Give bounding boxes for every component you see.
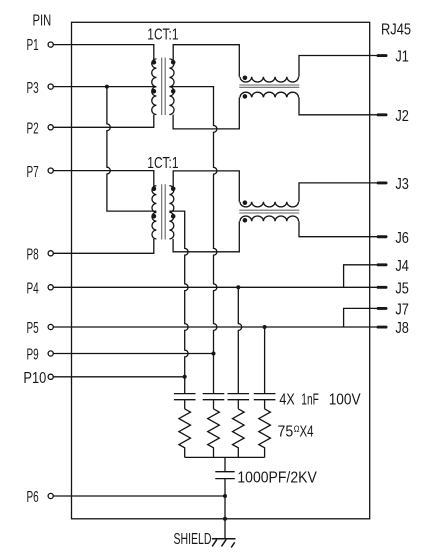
pin P6 bbox=[48, 493, 53, 498]
pad J8 bbox=[377, 326, 388, 329]
transformer T1 secondary winding bbox=[169, 59, 174, 115]
choke L1 bottom winding bbox=[240, 92, 299, 97]
T2 polarity dot secondary lower bbox=[171, 214, 176, 219]
svg-text:P8: P8 bbox=[27, 247, 39, 264]
T2 polarity dot primary upper bbox=[152, 187, 157, 192]
svg-text:P4: P4 bbox=[27, 281, 40, 298]
pad J1 bbox=[377, 54, 388, 57]
choke L2 dot top bbox=[243, 200, 248, 205]
wire T1 secondary bottom to choke L1 bottom input bbox=[173, 97, 239, 128]
svg-text:P9: P9 bbox=[27, 347, 39, 364]
transformer T2 secondary winding bbox=[169, 186, 173, 239]
svg-text:RJ45: RJ45 bbox=[381, 21, 411, 38]
transformer T1 primary winding bbox=[152, 59, 157, 115]
pad J2 bbox=[377, 113, 388, 116]
choke L2 dot bottom bbox=[243, 218, 248, 223]
choke L1 dot bottom bbox=[243, 94, 248, 99]
choke L2 core bbox=[239, 210, 299, 213]
wire rail center drop bbox=[224, 457, 226, 471]
node P6 shield junction bbox=[223, 494, 227, 498]
svg-text:J5: J5 bbox=[395, 281, 409, 298]
wire P9 row bbox=[53, 353, 213, 355]
transformer T1 core bbox=[162, 58, 166, 116]
wire line C choke2 bottom node down to capacitor C3 bbox=[238, 287, 241, 393]
wire P8 to T2 primary bottom bbox=[53, 239, 153, 253]
pin P4 bbox=[48, 285, 53, 290]
resistor R2 bbox=[208, 409, 220, 458]
svg-text:1CT:1: 1CT:1 bbox=[147, 155, 178, 172]
capacitor C5 1000PF plates bbox=[215, 472, 234, 479]
capacitor C1 plates bbox=[174, 394, 196, 400]
svg-text:P2: P2 bbox=[27, 121, 39, 138]
svg-text:1000PF/2KV: 1000PF/2KV bbox=[237, 469, 317, 486]
pin P1 bbox=[48, 42, 53, 47]
T1 polarity dot primary lower bbox=[152, 89, 157, 94]
wire shield line down to ground bbox=[224, 479, 226, 539]
pad J5 bbox=[377, 286, 388, 289]
module outline border bbox=[72, 22, 370, 519]
svg-text:P6: P6 bbox=[27, 489, 39, 506]
node P9 junction on line B bbox=[212, 352, 216, 356]
wire P6 row to shield line bbox=[53, 495, 225, 497]
pad J3 bbox=[377, 182, 388, 185]
capacitor C2 lead bbox=[213, 400, 215, 409]
wire J4 stub bbox=[344, 265, 377, 288]
pad J6 bbox=[377, 235, 388, 238]
wire termination bottom rail bbox=[185, 456, 265, 458]
wire P3 junction down to T2 primary center tap bbox=[107, 87, 156, 212]
pin P9 bbox=[48, 351, 53, 356]
pin P2 bbox=[48, 125, 53, 130]
svg-text:1nF: 1nF bbox=[301, 392, 319, 409]
pin P5 bbox=[48, 324, 53, 329]
svg-text:J1: J1 bbox=[395, 49, 409, 66]
wire P1 to T1 primary top bbox=[53, 45, 153, 61]
choke L2 bottom winding bbox=[240, 216, 299, 221]
T1 polarity dot primary upper bbox=[152, 60, 157, 65]
node P10 junction on line A bbox=[183, 375, 187, 379]
svg-text:4X: 4X bbox=[279, 392, 294, 409]
svg-text:J2: J2 bbox=[395, 108, 409, 125]
capacitor C3 plates bbox=[228, 394, 250, 400]
capacitor C3 lead bbox=[237, 400, 239, 409]
resistor R4 bbox=[259, 409, 271, 458]
pin P3 bbox=[48, 84, 53, 89]
svg-text:P10: P10 bbox=[23, 370, 46, 387]
choke L1 dot top bbox=[243, 76, 248, 81]
wire choke L1 top output to J1 bbox=[299, 56, 377, 77]
wire J7 stub bbox=[344, 308, 377, 327]
T2 polarity dot secondary upper bbox=[171, 187, 176, 192]
transformer T2 primary winding bbox=[152, 186, 156, 239]
svg-text:J8: J8 bbox=[395, 320, 409, 337]
node shield border junction bbox=[223, 517, 227, 521]
wire T2 secondary center tap down line A bbox=[169, 211, 188, 394]
wire P7 to T2 primary top bbox=[53, 171, 153, 188]
capacitor C2 plates bbox=[203, 394, 225, 400]
resistor R3 bbox=[233, 409, 245, 458]
node P5 capacitor branch junction bbox=[263, 325, 267, 329]
svg-text:P1: P1 bbox=[27, 37, 39, 54]
svg-text:X4: X4 bbox=[300, 424, 314, 441]
svg-text:SHIELD: SHIELD bbox=[174, 531, 212, 548]
T2 polarity dot primary lower bbox=[152, 214, 157, 219]
T1 polarity dot secondary lower bbox=[171, 89, 176, 94]
chassis ground symbol bbox=[212, 539, 236, 548]
wire choke L1 bottom output to J2 bbox=[299, 97, 377, 114]
wire T1 secondary center tap down line B bbox=[169, 87, 217, 394]
capacitor C4 plates bbox=[254, 394, 276, 400]
T1 polarity dot secondary upper bbox=[171, 60, 176, 65]
wire choke L2 bottom output to J6 bbox=[299, 221, 377, 237]
svg-text:J3: J3 bbox=[395, 176, 409, 193]
wire P4 row to J5 pad bbox=[53, 286, 376, 288]
svg-text:P5: P5 bbox=[27, 320, 39, 337]
choke L2 top winding bbox=[240, 202, 299, 207]
wire T1 secondary top to choke L1 top input bbox=[173, 45, 239, 77]
svg-text:PIN: PIN bbox=[33, 13, 52, 30]
svg-text:P7: P7 bbox=[27, 164, 39, 181]
wire P2 to T1 primary bottom bbox=[53, 115, 153, 128]
wire line D down to capacitor C4 bbox=[264, 327, 266, 394]
capacitor C4 lead bbox=[264, 400, 266, 409]
wire P10 row bbox=[53, 376, 184, 378]
resistor R1 bbox=[179, 409, 191, 458]
pad J7 bbox=[377, 307, 388, 310]
wire P3 to T1 primary center tap bbox=[53, 86, 156, 88]
svg-text:J7: J7 bbox=[395, 302, 409, 319]
svg-text:75: 75 bbox=[278, 424, 294, 441]
svg-text:J6: J6 bbox=[395, 230, 409, 247]
node P3 junction bbox=[105, 85, 109, 89]
node P4 capacitor branch junction bbox=[236, 285, 240, 289]
wire choke L2 top output to J3 bbox=[299, 183, 377, 202]
svg-text:1CT:1: 1CT:1 bbox=[147, 26, 178, 43]
svg-text:J4: J4 bbox=[395, 258, 409, 275]
choke L1 core bbox=[239, 85, 299, 87]
wire T2 secondary bottom to choke L2 bottom input bbox=[173, 221, 239, 252]
choke L1 top winding bbox=[240, 77, 299, 82]
pin P8 bbox=[48, 251, 53, 256]
wire T2 secondary top to choke L2 top input bbox=[173, 171, 239, 202]
pad J4 bbox=[377, 263, 388, 266]
svg-text:100V: 100V bbox=[329, 392, 362, 409]
transformer T2 core bbox=[162, 184, 166, 239]
pin P10 bbox=[48, 374, 53, 379]
capacitor C1 lead bbox=[184, 400, 186, 409]
wire P5 row to J8 pad bbox=[53, 326, 376, 328]
pin P7 bbox=[48, 168, 53, 173]
svg-text:P3: P3 bbox=[27, 80, 39, 97]
